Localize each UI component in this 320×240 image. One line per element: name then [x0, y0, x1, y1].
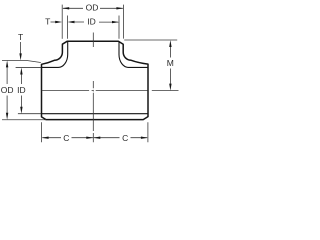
extension line run OD top [2, 60, 41, 62]
right C left arrow [93, 137, 100, 139]
svg-text:C: C [63, 133, 69, 143]
top T/ID shared arrow pointing left [68, 21, 75, 23]
extension line run ID bottom [18, 113, 41, 115]
extension line branch ID right [118, 16, 120, 39]
top ID dimension line [73, 21, 118, 23]
left T down arrow [19, 53, 21, 60]
extension line branch OD left [61, 5, 63, 39]
left C dimension line [42, 137, 93, 139]
right C dimension line [94, 137, 147, 139]
left ID up arrow [20, 67, 22, 74]
C extension line left [41, 122, 43, 142]
right C right arrow [141, 137, 148, 139]
run bore bottom ID line [42, 113, 149, 115]
left ID down arrow [20, 107, 22, 114]
extension line branch ID left [67, 16, 69, 39]
run bore top-left ID line with crotch fillet [42, 42, 68, 68]
left OD dimension line [6, 67, 8, 114]
left C right arrow [86, 137, 93, 139]
top T dim line left [51, 21, 57, 23]
top OD left arrow [62, 7, 69, 9]
top T left arrow [55, 21, 62, 23]
svg-text:T: T [45, 16, 50, 26]
run bore top-right ID line with crotch fillet [119, 42, 148, 68]
left C left arrow [42, 137, 49, 139]
svg-text:OD: OD [1, 85, 14, 95]
svg-text:ID: ID [17, 85, 26, 95]
vertical branch centerline [92, 33, 94, 143]
svg-text:ID: ID [87, 16, 96, 26]
top ID right arrow [112, 21, 119, 23]
svg-text:C: C [122, 133, 128, 143]
left OD up arrow [6, 60, 8, 67]
svg-text:T: T [18, 32, 23, 42]
extension line branch face for M [124, 39, 177, 41]
top OD right arrow [116, 7, 123, 9]
top OD dimension line [63, 7, 123, 9]
horizontal run centerline [42, 90, 179, 92]
extension line run OD bottom [2, 119, 46, 121]
tee body outline [42, 41, 149, 119]
extension line run ID top [16, 66, 41, 68]
extension line branch OD right [122, 5, 124, 39]
svg-text:M: M [167, 58, 174, 68]
left ID dimension line [20, 74, 22, 108]
M up arrow [169, 40, 171, 47]
C extension line right [147, 122, 149, 142]
left OD down arrow [6, 113, 8, 120]
left T leader line [20, 42, 22, 54]
svg-text:OD: OD [86, 3, 99, 13]
M dimension line [169, 47, 171, 85]
M down arrow [169, 84, 171, 91]
